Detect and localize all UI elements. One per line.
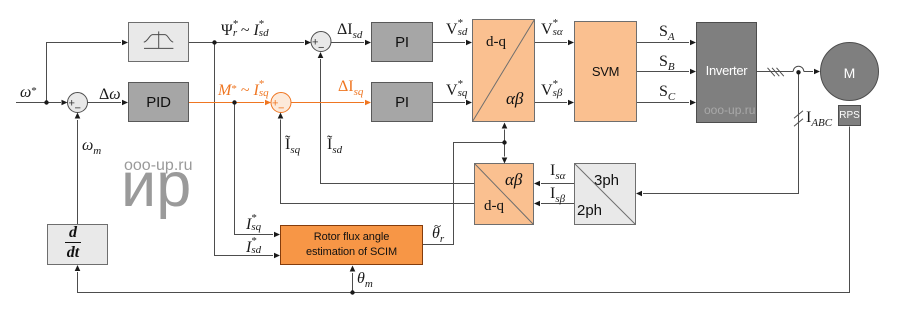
label 2ph xyxy=(577,202,602,219)
wire branch up to flux block xyxy=(47,43,122,103)
3ph to 2ph transform block xyxy=(574,163,636,225)
wire Isd* reference branch xyxy=(215,43,274,256)
arrow into motor xyxy=(814,69,820,75)
junction dot theta_m xyxy=(350,290,354,294)
label theta_m xyxy=(357,271,373,287)
junction dot Isq* xyxy=(232,100,236,104)
arrow into estimator Isq* xyxy=(274,232,280,238)
RPS sensor xyxy=(838,105,861,126)
Rotor flux angle estimation block xyxy=(280,225,423,265)
PID controller xyxy=(128,82,189,122)
arrow into d/dt bottom xyxy=(75,265,81,271)
wire flux block to sum J2 xyxy=(189,42,304,44)
three-phase slashes on inverter output xyxy=(768,68,784,76)
arrow into estimator bottom xyxy=(350,266,356,272)
label SC xyxy=(659,84,675,100)
watermark ooo-up.ru inside inverter xyxy=(704,104,755,116)
wire SVM to inverter SB xyxy=(637,71,689,73)
arrow into inverter SA xyxy=(690,40,696,46)
orange wire PID to J3 xyxy=(189,102,264,104)
wire SVM to inverter SC xyxy=(637,102,689,104)
d-q to alpha-beta transform block xyxy=(472,19,535,122)
summing junction J2 xyxy=(311,32,331,55)
label Isq-tilde xyxy=(285,137,300,153)
arrow into inverter SB xyxy=(690,69,696,75)
label delta Isq (orange) xyxy=(338,79,363,95)
junction dot Isd* xyxy=(212,40,216,44)
d/dt block xyxy=(47,224,108,265)
arrow into flux block xyxy=(122,40,128,46)
alpha-beta to d-q transform block (feedback) xyxy=(474,163,534,225)
label Isd* xyxy=(246,238,259,256)
label M* ~ Isq* (orange) xyxy=(218,81,267,99)
wire inverter to motor xyxy=(757,71,793,73)
arrow into dq1 bottom xyxy=(466,100,472,106)
label Isq* xyxy=(246,215,259,233)
arrow into inverter SC xyxy=(690,100,696,106)
arrow into estimator Isd* xyxy=(274,253,280,259)
svg-text:−: − xyxy=(278,103,284,115)
label alpha-beta (upper transform) xyxy=(506,89,523,109)
arrow into dq2 top edge (theta) xyxy=(502,158,508,164)
Inverter block xyxy=(696,22,757,123)
wire d-q to SVM (Vsa) xyxy=(535,42,567,44)
diagonal of lower ab-dq block xyxy=(475,164,534,225)
arrow into J3 from PID xyxy=(265,100,271,106)
wire RPS down, bottom bus to d/dt xyxy=(78,127,850,293)
PI controller 1 (d-axis) xyxy=(371,22,433,62)
wire Isq* reference branch xyxy=(235,103,274,235)
summing junction J3 (orange) xyxy=(271,93,291,115)
wire J1 to PID xyxy=(88,102,122,104)
label alpha-beta (lower transform) xyxy=(505,170,522,190)
arrow into J1 bottom xyxy=(75,113,81,119)
label Vsd* xyxy=(446,20,466,38)
arrow into dq1 top xyxy=(466,40,472,46)
wire d-q to SVM (Vsb) xyxy=(535,102,567,104)
label Isa xyxy=(550,163,565,179)
motor M xyxy=(820,42,879,101)
wire theta to lower d-q block xyxy=(504,143,506,157)
label Isd-tilde xyxy=(327,137,342,153)
flux curve symbol inside flux block xyxy=(144,31,174,48)
arrow into PI1 xyxy=(365,40,371,46)
arrow into SVM bottom xyxy=(568,100,574,106)
label omega* xyxy=(20,85,37,101)
wire Isq-tilde feedback xyxy=(281,120,475,204)
flux-weakening block F1 xyxy=(128,22,189,62)
wire theta to upper d-q block xyxy=(504,130,506,143)
arrow into dq2 right Isa xyxy=(534,181,540,187)
label SA xyxy=(659,24,675,40)
label Isb xyxy=(550,186,565,202)
watermark ooo-up.ru center xyxy=(124,158,193,174)
label theta_r tilde xyxy=(432,226,444,242)
junction dot omega* xyxy=(44,100,48,104)
label 3ph xyxy=(594,172,619,189)
arrow into dq1 bottom edge (theta) xyxy=(502,123,508,129)
slashes on IABC wire xyxy=(794,111,803,126)
arrow into J2 xyxy=(305,40,311,46)
wire PI2 to d-q block xyxy=(433,102,465,104)
arrow into J1 xyxy=(62,100,68,106)
label SB xyxy=(659,54,675,70)
label Vsq* xyxy=(446,81,466,99)
arrow into 3ph block xyxy=(636,191,642,197)
orange arrowheads xyxy=(265,100,371,106)
wire J2 to PI1 xyxy=(331,42,364,44)
label Vsa* xyxy=(541,20,561,38)
wire theta_r from estimator to transforms xyxy=(423,143,505,245)
arrow into J3 bottom xyxy=(278,113,284,119)
label Psi_r* ~ Isd* xyxy=(221,21,267,39)
wire d/dt to J1 xyxy=(77,120,79,224)
label Vsb* xyxy=(541,81,561,99)
watermark ир xyxy=(121,154,191,217)
svg-text:−: − xyxy=(318,42,324,54)
summing junction J1 xyxy=(68,93,88,115)
wire PI1 to d-q block xyxy=(433,42,465,44)
label d-q (lower transform) xyxy=(484,198,504,215)
arrow into PI2 xyxy=(365,100,371,106)
arrow into PID xyxy=(122,100,128,106)
PI controller 2 (q-axis) xyxy=(371,82,433,122)
wire Isd-tilde feedback xyxy=(321,59,475,184)
label delta-omega xyxy=(99,87,121,103)
wire 3ph2ph to ab-dq Isa xyxy=(541,183,574,185)
wire omega* input xyxy=(16,102,61,104)
junction dot motor line xyxy=(796,70,800,74)
arrow into dq2 right Isb xyxy=(534,201,540,207)
arrow into SVM top xyxy=(568,40,574,46)
orange wire J3 to PI2 xyxy=(291,102,364,104)
svg-text:−: − xyxy=(75,103,81,115)
label d-q (upper transform) xyxy=(486,34,506,51)
junction dot theta wire xyxy=(502,140,506,144)
wire SVM to inverter SA xyxy=(637,42,689,44)
wire IABC down and to 3ph block xyxy=(643,73,799,194)
wire 3ph2ph to ab-dq Isb xyxy=(541,203,574,205)
hop arc over junction xyxy=(793,66,804,71)
diagonal of 3ph-2ph block xyxy=(575,164,636,225)
wire theta_m branch to estimator xyxy=(352,273,354,293)
label delta Isd xyxy=(337,22,362,38)
label omega_m xyxy=(82,138,101,154)
label IABC xyxy=(806,110,832,126)
arrow into J2 bottom xyxy=(318,52,324,58)
diagonal of upper d-q block xyxy=(473,20,535,122)
SVM block xyxy=(574,21,637,122)
